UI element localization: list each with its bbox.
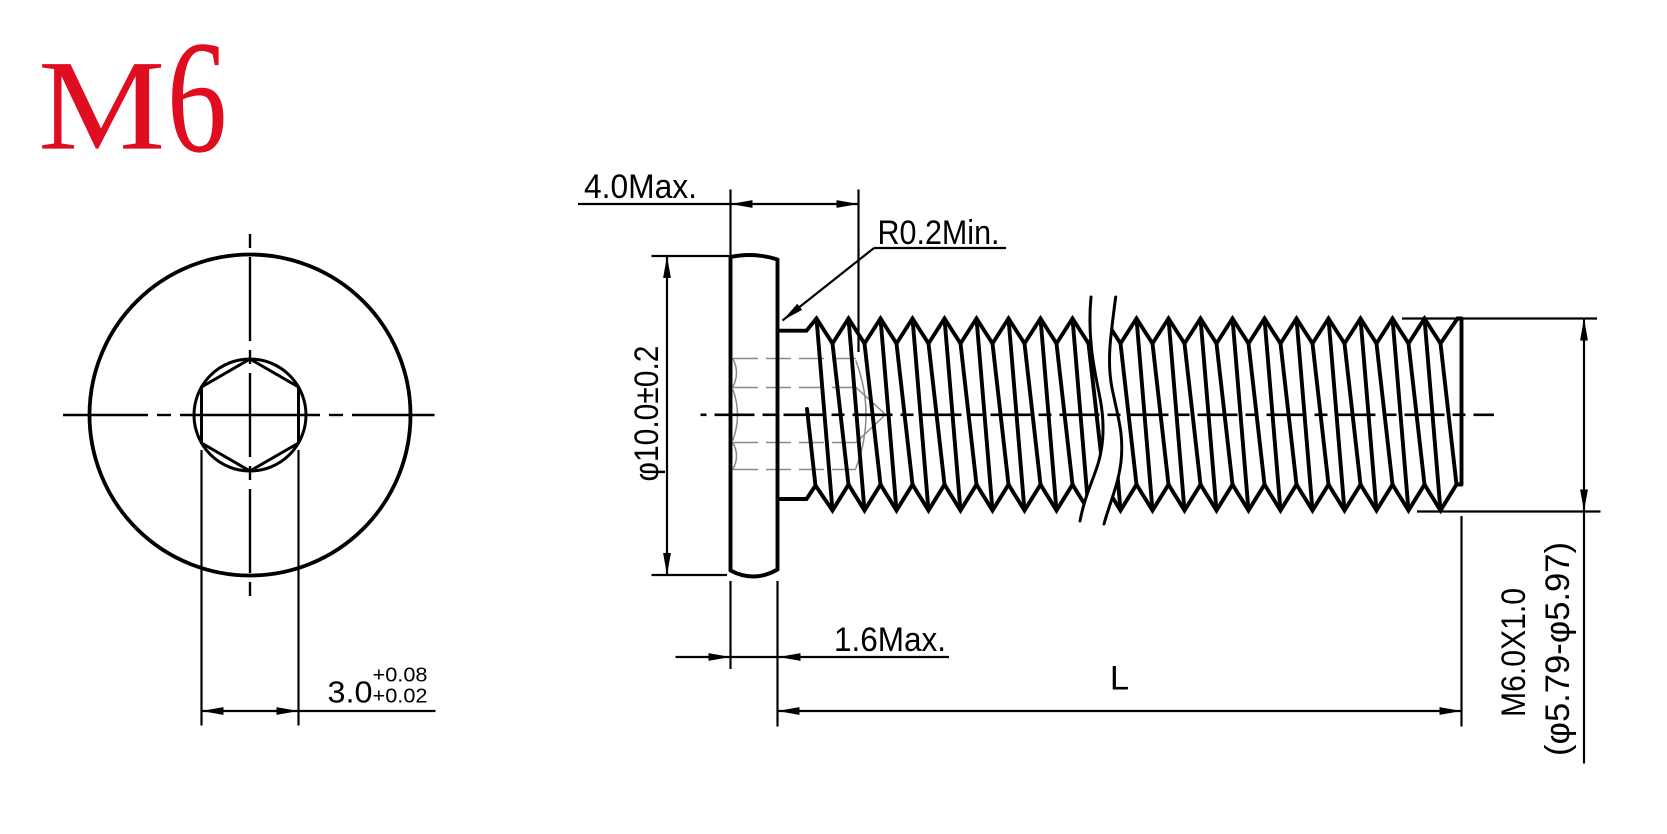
svg-text:(φ5.79-φ5.97): (φ5.79-φ5.97) [1539,542,1577,756]
svg-text:3.0: 3.0 [328,675,373,710]
svg-text:R0.2Min.: R0.2Min. [878,214,1000,252]
svg-text:+0.08: +0.08 [373,664,428,687]
svg-text:1.6Max.: 1.6Max. [834,621,946,659]
svg-text:M: M [38,35,165,177]
svg-text:4.0Max.: 4.0Max. [584,168,697,206]
svg-text:φ10.0±0.2: φ10.0±0.2 [628,346,666,482]
svg-text:L: L [1110,660,1129,698]
svg-text:6: 6 [167,7,227,186]
svg-text:M6.0X1.0: M6.0X1.0 [1495,588,1533,717]
svg-text:+0.02: +0.02 [373,685,428,708]
